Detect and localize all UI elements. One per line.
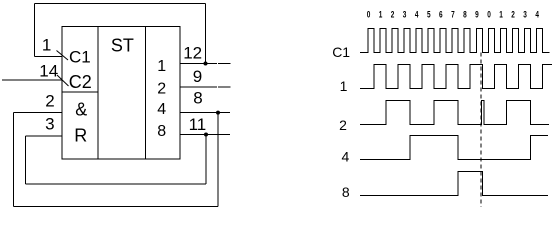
wire pin 9 output <box>180 86 217 88</box>
svg-text:9: 9 <box>193 67 202 86</box>
junction pin 11 <box>204 133 208 137</box>
counter IC DD1 outline <box>62 27 180 160</box>
wire pin 2 (R input a) <box>14 112 63 114</box>
waveform out 2 <box>360 101 549 125</box>
svg-text:14: 14 <box>39 62 58 81</box>
svg-text:2: 2 <box>45 92 54 111</box>
svg-text:12: 12 <box>183 44 202 63</box>
junction pin 12 <box>204 62 208 66</box>
wire bottom outer <box>14 206 219 208</box>
waveform out 1 <box>360 65 552 89</box>
svg-text:1: 1 <box>42 36 51 55</box>
svg-text:1: 1 <box>499 10 503 20</box>
svg-text:2: 2 <box>391 10 395 20</box>
timing digits row <box>367 10 540 20</box>
svg-text:C1: C1 <box>332 44 350 60</box>
wire pin 8 output <box>180 112 230 114</box>
waveform out 8 <box>360 172 548 196</box>
svg-text:R: R <box>74 126 87 146</box>
wire pin 11 loop vertical <box>205 135 207 185</box>
svg-text:4: 4 <box>415 10 419 20</box>
wire pin 8 loop vertical <box>217 113 219 207</box>
wire pin 12 output <box>180 63 217 65</box>
svg-text:2: 2 <box>157 81 166 98</box>
wire pin 3 (R input b) <box>26 135 63 137</box>
wire pin 3 loop vertical <box>25 136 27 184</box>
svg-text:2: 2 <box>511 10 515 20</box>
reset dashed line <box>480 53 482 207</box>
wire feedback vertical right <box>205 4 207 64</box>
wire pin 2 loop vertical <box>13 113 15 207</box>
wire bottom inner <box>26 183 207 185</box>
svg-text:0: 0 <box>367 10 371 20</box>
wire feedback vertical left <box>34 4 36 57</box>
svg-text:0: 0 <box>487 10 491 20</box>
wire pin 1 (C1 input) <box>35 56 63 58</box>
waveform out 4 <box>360 136 548 160</box>
svg-text:3: 3 <box>45 114 54 133</box>
svg-text:9: 9 <box>475 10 479 20</box>
svg-text:C2: C2 <box>69 72 92 92</box>
svg-text:6: 6 <box>439 10 443 20</box>
svg-text:1: 1 <box>157 58 166 75</box>
svg-text:3: 3 <box>523 10 527 20</box>
svg-text:8: 8 <box>157 123 166 140</box>
svg-text:4: 4 <box>535 10 539 20</box>
IC divider left column <box>97 27 99 160</box>
svg-text:3: 3 <box>403 10 407 20</box>
svg-text:1: 1 <box>340 78 348 94</box>
svg-text:8: 8 <box>342 184 350 200</box>
IC section divider under C2 <box>62 91 98 93</box>
svg-text:8: 8 <box>463 10 467 20</box>
wire pin 11 output <box>180 134 230 136</box>
svg-text:7: 7 <box>451 10 455 20</box>
junction pin 8 <box>216 111 220 115</box>
svg-text:4: 4 <box>342 149 350 165</box>
IC divider right column <box>145 27 147 160</box>
dynamic input slash C2 <box>57 75 69 86</box>
svg-text:C1: C1 <box>69 48 91 67</box>
wire feedback top <box>35 3 206 5</box>
svg-text:ST: ST <box>111 36 134 56</box>
wire pin 9 output stub <box>218 86 230 88</box>
svg-text:&: & <box>75 100 87 120</box>
svg-text:11: 11 <box>189 115 207 134</box>
svg-text:2: 2 <box>339 117 347 133</box>
svg-text:5: 5 <box>427 10 431 20</box>
svg-text:4: 4 <box>157 101 166 118</box>
wire pin 12 output stub <box>218 63 230 65</box>
svg-text:1: 1 <box>379 10 383 20</box>
svg-text:8: 8 <box>193 89 202 108</box>
wire pin 14 (C2 input) <box>2 79 62 81</box>
dynamic input slash C1 <box>57 51 69 61</box>
waveform C1 clock <box>360 29 549 53</box>
